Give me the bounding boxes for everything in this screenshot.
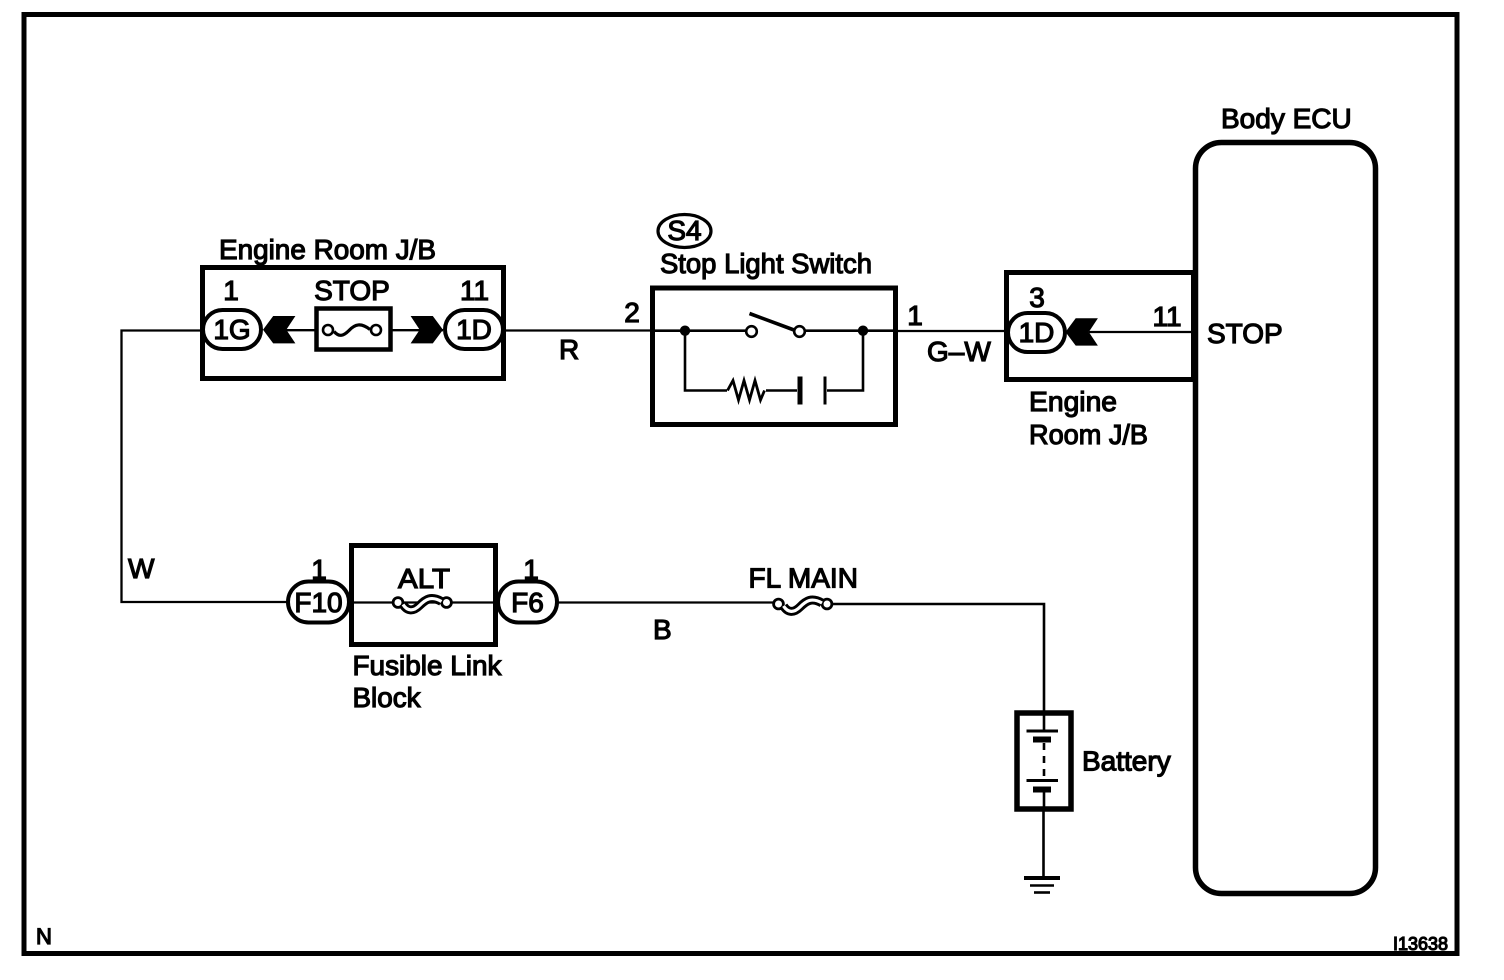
svg-text:FL MAIN: FL MAIN: [749, 563, 858, 594]
fusible link ALT: [349, 598, 498, 610]
svg-text:ALT: ALT: [398, 563, 450, 594]
svg-text:N: N: [36, 924, 52, 949]
svg-text:1G: 1G: [213, 314, 250, 345]
svg-text:1D: 1D: [456, 314, 492, 345]
wire R segment: [505, 329, 652, 331]
svg-text:B: B: [653, 614, 672, 645]
capacitor: [800, 377, 825, 405]
svg-text:G–W: G–W: [927, 336, 991, 367]
connector 1D: [445, 310, 503, 349]
junction block: Engine Room J/B (right): [1007, 273, 1194, 380]
branch wire right: [827, 331, 863, 391]
svg-text:1D: 1D: [1019, 317, 1055, 348]
svg-text:Engine: Engine: [1029, 386, 1117, 417]
junction dot left: [680, 326, 690, 336]
battery B1: [1017, 713, 1071, 809]
svg-text:Room J/B: Room J/B: [1029, 419, 1148, 450]
svg-text:STOP: STOP: [314, 275, 390, 306]
svg-text:11: 11: [1152, 301, 1181, 332]
svg-text:Block: Block: [353, 682, 422, 713]
wire to Body ECU STOP pin: [1089, 331, 1194, 333]
resistor: [728, 381, 765, 401]
connector 1G: [203, 310, 261, 349]
svg-text:Engine Room J/B: Engine Room J/B: [219, 234, 436, 265]
arrow out of fuse toward 1D: [411, 316, 443, 343]
ECU: Body ECU: [1196, 143, 1376, 894]
wire battery to ground: [1042, 809, 1045, 877]
wire resistor to capacitor: [766, 389, 797, 392]
wire G-W segment: [898, 330, 1007, 332]
arrow into 1D (right): [1066, 318, 1098, 345]
switch contacts and blade: [746, 314, 805, 337]
svg-text:Battery: Battery: [1082, 746, 1171, 777]
stop light switch S4 box: [653, 288, 896, 425]
svg-text:F10: F10: [294, 587, 342, 618]
wire fuse to arrows: [284, 329, 443, 331]
svg-text:F6: F6: [511, 587, 544, 618]
svg-text:S4: S4: [667, 215, 701, 246]
svg-text:2: 2: [624, 297, 640, 328]
svg-text:Fusible Link: Fusible Link: [353, 650, 503, 681]
svg-text:I13638: I13638: [1393, 934, 1448, 954]
svg-text:3: 3: [1029, 282, 1045, 313]
wire to battery: [833, 604, 1044, 711]
svg-text:11: 11: [460, 275, 489, 306]
svg-text:W: W: [128, 553, 155, 584]
connector F10: [288, 582, 349, 623]
svg-text:STOP: STOP: [1207, 318, 1283, 349]
svg-text:Body ECU: Body ECU: [1221, 103, 1352, 134]
switch identifier S4: [658, 215, 711, 248]
junction dot right: [858, 326, 868, 336]
branch wire left (to RC): [685, 331, 727, 391]
svg-text:1: 1: [223, 275, 239, 306]
ground: [1024, 878, 1060, 893]
svg-text:R: R: [559, 334, 579, 365]
svg-text:Stop Light Switch: Stop Light Switch: [660, 248, 872, 279]
junction block: Engine Room J/B (left): [203, 268, 504, 379]
arrow into 1G: [263, 316, 295, 343]
wire B segment: [557, 601, 773, 603]
connector 1D (right): [1008, 313, 1065, 352]
connector F6: [498, 582, 557, 623]
fusible link block box: [352, 546, 496, 645]
wire through switch: [650, 329, 747, 332]
fusible link FL MAIN: [774, 599, 832, 611]
wire W (from 1G down and right to F10): [122, 331, 289, 603]
fuse STOP: [317, 309, 391, 350]
svg-text:1: 1: [907, 300, 923, 331]
